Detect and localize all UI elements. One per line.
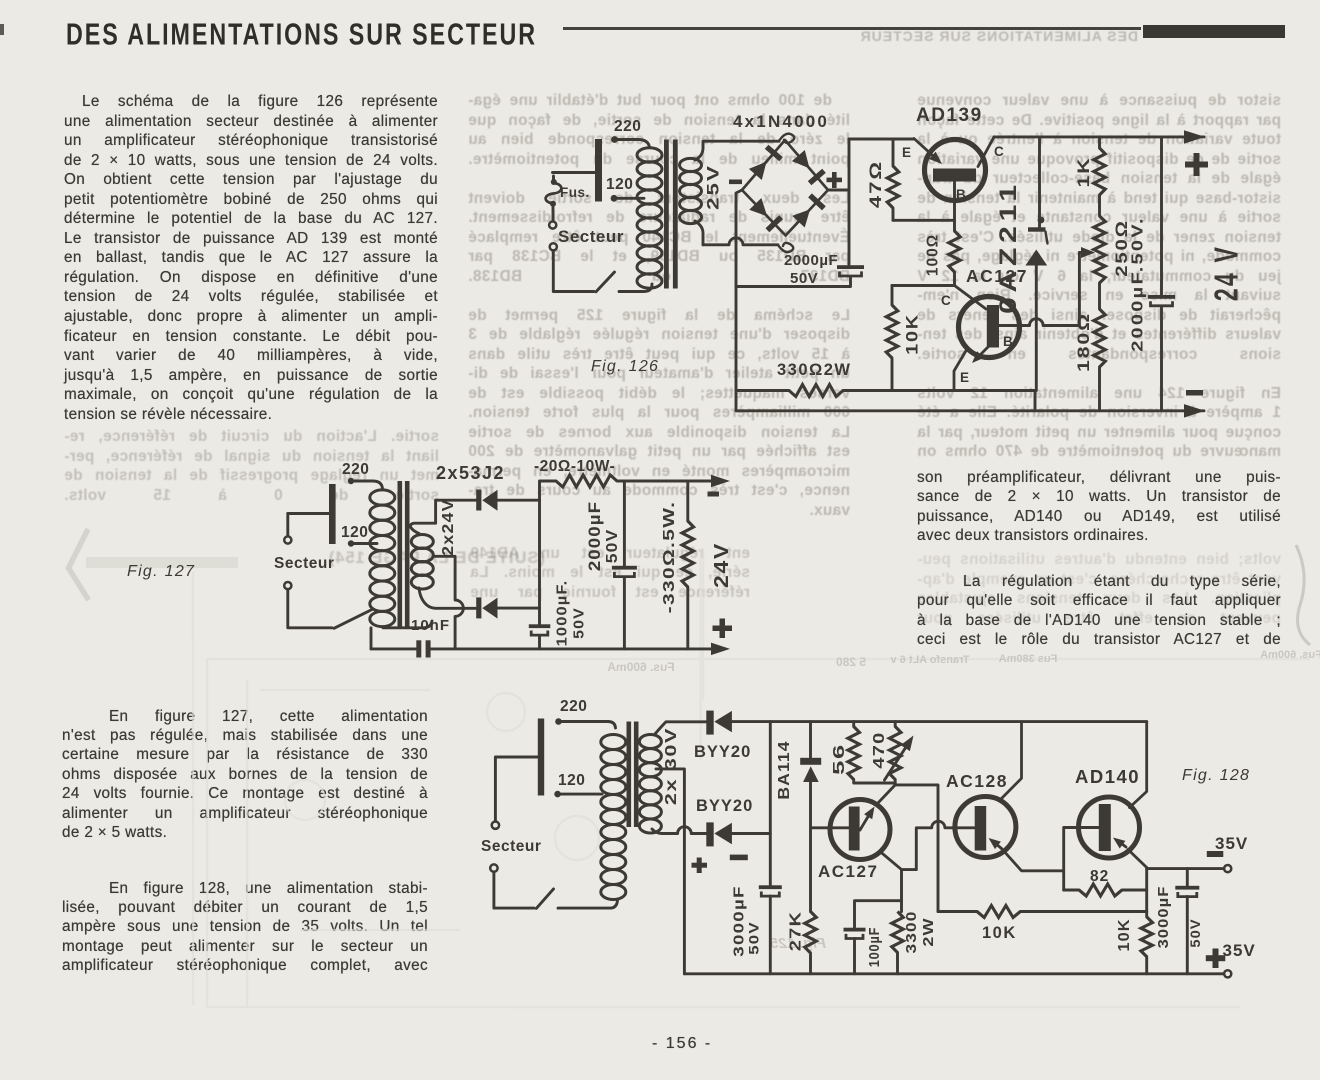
svg-text:B: B [956,187,966,202]
svg-text:5 280: 5 280 [836,655,866,669]
transistor AC128 [955,722,1064,871]
wire D1 to filter node [498,499,540,502]
wire bridge minus down the left (node -) [736,190,742,411]
output + sign (Fig.127) [713,619,733,639]
svg-text:Secteur: Secteur [481,838,541,855]
wire C2 to bottom rail [1160,306,1163,411]
filter node vertical (Fig.127) [538,500,541,624]
capacitor C1 2000uF stem [848,190,851,265]
wire 100uF to rail [853,939,856,974]
svg-text:24 V: 24 V [1208,245,1245,301]
transistor AD139 label [916,105,983,126]
wire switch to coil bottom (Fig.127) [383,621,432,628]
label BYY20 no.1 [694,743,751,761]
diode BA114 [800,758,821,782]
bottom rail left piece (Fig.127) [371,647,416,650]
resistor 330ohm 2W [789,385,843,397]
top rail (Fig.128) [732,720,1147,723]
transformer T1 secondary winding 25V [680,158,702,223]
label B of AC127 [1003,334,1013,349]
AC127 emitter net to 3300 [900,870,903,912]
bleed chevron arrow glyph [69,529,89,600]
label 10nF [411,617,450,634]
label 50V of 1000uF rotated [571,607,587,639]
svg-text:50V: 50V [1188,918,1204,947]
label B of AD139 [956,187,966,202]
svg-text:-20Ω-10W-: -20Ω-10W- [534,458,615,475]
label +35V plus sign [1206,949,1226,969]
wire plate left (Fig.128) [496,756,538,759]
transformer T1 120 terminal dot and lead wire [611,195,644,202]
diode D2 2x53J2 bottom [476,597,497,618]
bridge diode D1 upper-left [749,147,781,180]
text column 1 (top left) [64,93,438,425]
svg-text:Fig. 128: Fig. 128 [1182,767,1250,784]
secondary bottom lead with hop (Fig.128) [652,827,706,834]
svg-text:Fig. 127: Fig. 127 [127,563,195,580]
bleed mirrored text: middle column top [468,92,850,521]
transformer T3 secondary 2x30V [639,735,661,834]
bleed gray band [86,557,238,568]
svg-text:Fig. 126: Fig. 126 [591,358,659,375]
label 10K rotated (Fig.126) [903,313,921,355]
svg-text:82: 82 [1090,868,1109,885]
svg-text:50V: 50V [603,529,621,564]
label 24 V rotated (Fig.126) [1208,245,1245,301]
transformer T3 120 dot and wire [554,791,602,798]
label 1000uF rotated [554,580,570,647]
svg-text:25V: 25V [704,164,723,210]
top rail + AD139 C to output arrow [994,135,1204,138]
label BYY20 no.2 [696,797,753,815]
diode BA114 line from rail [809,722,812,758]
label 3000uF no.2 rotated [1155,886,1171,949]
svg-text:24V: 24V [709,542,732,588]
capacitor 3000uF 50V no.1 [759,885,782,896]
page edge tick [0,24,4,35]
wire switch to coil bottom (Fig.128) [558,900,618,908]
label 50V [790,270,818,287]
header thick bar [1143,25,1285,39]
top rail riser (Fig.127) [540,481,557,500]
text column 2 paragraph 2 [62,880,428,977]
transformer T3 primary winding [601,735,626,900]
output terminal -35V [1224,865,1231,872]
label 25V rotated [704,164,723,210]
wire 2000uF to rail (Fig.127) [623,577,626,649]
resistor 10K row (Fig.128) [938,906,1147,918]
svg-text:120: 120 [606,176,633,193]
svg-text:2x 30V: 2x 30V [663,727,681,805]
transistor AD140 label [1075,766,1140,787]
cap polarity + sign [692,858,708,874]
diode D1 2x53J2 top [476,490,497,511]
svg-text:2x53J2: 2x53J2 [436,463,505,483]
label 470 rotated [870,731,888,768]
cap polarity - sign [730,855,748,861]
wire BYY20 no.2 to cap node [732,832,770,835]
top rail + (Fig.126) bridge to AD139 E corner [849,138,914,141]
node wire to 10K row [895,785,938,912]
transformer T2 secondary 2x24V [411,535,433,590]
label 35V bottom [1223,941,1256,960]
resistor 330ohm 5W vertical [682,481,694,649]
resistor 3300 2W [892,912,904,974]
svg-text:50V: 50V [747,921,762,954]
wire BA114 to AC127 base (Fig.128) [811,826,849,829]
lower open terminal (Fig.127) [284,582,291,589]
output terminal +35V [1224,970,1231,977]
svg-text:220: 220 [614,118,641,135]
label Secteur (Fig.126) [558,227,624,246]
zener 0AZ211 triangle [1025,250,1047,266]
capacitor 1000uF 50V [529,624,551,635]
svg-text:10K: 10K [903,313,921,355]
label Fus. [560,185,590,200]
switch open terminal lower (Fig.126) [550,243,557,250]
svg-text:2000µF.50V.: 2000µF.50V. [1128,216,1146,352]
text right column block B [917,573,1281,651]
label 250ohm rotated [1111,219,1130,277]
svg-text:220: 220 [342,461,369,478]
label 1K rotated [1075,157,1094,188]
diode BYY20 no.2 [706,822,732,846]
svg-text:BA114: BA114 [775,740,793,799]
label 0AZ211 rotated [995,180,1021,314]
svg-text:47Ω: 47Ω [867,160,886,208]
resistor 10K vertical (Fig.128) [1141,917,1153,974]
top rail to arrow (Fig.127) [617,480,711,483]
label 2x53J2 [436,463,505,483]
transformer T2 220 label (Fig.127) [342,461,369,478]
header mirrored bleed [828,28,1138,44]
transformer T3 220 label (Fig.128) [560,698,587,715]
ghost schematic bleed-through (decorative) [193,548,1310,1007]
label 2000uF.50V rotated [1128,216,1146,352]
transformer T2 120 dot and wire [348,540,377,546]
svg-text:56: 56 [830,743,848,775]
diode BYY20 no.1 [706,711,732,735]
wire secondary bottom to AC wire (Fig.126) [695,221,703,245]
header thin rule [563,27,1141,30]
label 3300 rotated [903,911,920,954]
wire primary bottom to low rail (Fig.127) [370,628,373,649]
capacitor C2 2000uF.50V stem [1160,137,1163,295]
mains selector plate bar (Fig.127) [329,484,336,544]
AC128 base wire with hop [902,821,975,869]
svg-text:Fus. 600mA: Fus. 600mA [1260,649,1320,661]
fuse Fus. (Fig.126) squiggle with dots [546,176,562,207]
svg-text:2000µF: 2000µF [784,252,838,269]
AC127 base wire with hop over zener line [999,319,1079,326]
svg-text:180Ω: 180Ω [1075,312,1094,372]
upper open terminal (Fig.128) [492,757,499,829]
wire secondary top to bridge AC input (Fig.126) [695,141,779,160]
wire D2 to filter node [498,607,540,610]
center tap wire down (Fig.128) [656,769,684,974]
wire AD139 base down [953,182,956,232]
zener diode 0AZ211 line from top rail [1038,137,1041,227]
transformer T1 (Fig.126) primary terminal 220 label [614,118,641,135]
wire 10K top link and AC127 collector [892,286,986,310]
resistor 20ohm 10W [556,475,617,487]
transistor AC128 label [946,771,1008,791]
transformer T3 core [627,722,639,828]
svg-text:470: 470 [870,731,888,768]
label Fig. 126 [591,358,659,375]
capacitor C1 2000uF 50V [837,265,864,276]
zener 0AZ211 cathode bar and jog [1028,227,1048,243]
output - arrow (Fig.126) [1184,404,1205,418]
svg-text:0AZ211: 0AZ211 [995,180,1021,314]
label 180ohm rotated [1075,312,1094,372]
label C of AC127 [941,293,951,308]
svg-text:100µF: 100µF [865,927,882,968]
label 27K rotated [786,911,804,951]
label 2000uF [784,252,838,269]
label 50V rotated (Fig.127) [603,529,621,564]
wire plate to fuse (Fig.126) [553,171,596,174]
svg-text:2x24V: 2x24V [439,498,457,555]
switch blade (Fig.127) [334,610,372,629]
label -20ohm-10W- [534,458,615,475]
transformer T2 120 label (Fig.127) [341,524,368,541]
transformer T1 core laminations [664,140,678,289]
transistor AD139 (Fig.126) [914,137,994,201]
zener junction dot [1038,217,1045,224]
resistor 10K vertical (Fig.126) [886,286,898,391]
label 2W rotated [919,917,936,946]
bleed mirrored text: right column mid [917,551,1281,629]
label E of AD139 [902,145,911,160]
wire bridge plus to top rail [828,139,849,190]
bridge top pigtail [779,134,794,143]
label Fig. 127 [127,563,195,580]
label 50V no.2 rotated [1188,918,1204,947]
svg-text:BYY20: BYY20 [694,743,751,761]
svg-text:100Ω: 100Ω [925,234,942,276]
resistor 100ohm vertical [949,231,961,286]
capacitor 3000uF no.1 stem [769,722,772,886]
transformer T1 220 terminal dot and lead wire [611,136,649,147]
svg-text:3000µF: 3000µF [1155,886,1171,949]
output + sign (Fig.126) [1185,153,1208,176]
svg-text:3300: 3300 [903,911,920,954]
wire 3000uF no.2 to rail [1186,897,1189,974]
label 24V rotated (Fig.127) [709,542,732,588]
svg-text:AD139: AD139 [916,105,983,126]
capacitor 3000uF no.2 [1175,886,1199,897]
wire C1 bottom to minus line [736,277,851,287]
transformer T1 primary winding [637,148,662,288]
svg-text:AC127: AC127 [818,862,878,881]
wiper wire down to AC127 base [1078,253,1081,326]
bottom rail continues to step [843,391,1035,411]
transistor AC127 (Fig.128) [830,785,902,870]
output - sign (Fig.127) [708,492,720,497]
label 56 rotated [830,743,848,775]
bridge diode D2 upper-right [792,150,824,183]
text column 2 (bottom left) paragraph 1 [62,708,428,844]
wire plate to left (Fig.127) [288,512,329,515]
secondary top lead (Fig.128) [655,722,706,734]
wire to switch (Fig.128) [494,872,534,908]
svg-text:Secteur: Secteur [558,227,624,246]
svg-text:330Ω2W: 330Ω2W [777,361,852,379]
svg-text:1000µF.: 1000µF. [554,580,570,647]
zener line down to rail [1035,266,1038,391]
bottom rail (Fig.128) [684,972,1223,975]
transformer T1 primary terminal 120 label [606,176,633,193]
label -330ohm.5W- rotated [660,501,678,614]
bottom AC wire with hop over minus line [703,238,778,245]
page number [652,1035,712,1053]
svg-text:C: C [941,293,951,308]
capacitor 100uF tee [855,901,902,928]
svg-text:10K: 10K [1116,919,1133,952]
switch blade (Fig.128) [536,889,553,909]
transformer T2 primary winding [370,490,395,627]
label Secteur (Fig.127) [274,555,334,572]
svg-text:E: E [902,145,911,160]
transistor AC127 (Fig.126) [954,297,1020,391]
capacitor 2000uF stem (Fig.127) [623,481,626,566]
svg-text:50V: 50V [571,607,587,639]
capacitor 10nF plates [416,640,430,657]
resistor 56 [848,722,894,783]
bottom rail main (Fig.127) [431,647,711,650]
bridge plus sign [827,172,843,188]
pot 470 wiper arrow [885,736,914,781]
upper open terminal (Fig.127) [284,514,291,544]
transistor AC127 label (Fig.126) [966,266,1028,286]
svg-text:220: 220 [560,698,587,715]
bridge bottom pigtail [778,243,793,252]
mains selector plate bar (Fig.128) [538,719,544,796]
capacitor 3000uF no.2 stem [1186,869,1189,886]
svg-text:E: E [960,370,969,385]
output top arrow (Fig.127) [711,475,730,487]
transistor AC127 label (Fig.128) [818,862,878,881]
resistor 180ohm vertical [1094,283,1106,411]
switch blade (Fig.126) [596,272,615,292]
svg-text:-330Ω.5W.: -330Ω.5W. [660,501,678,614]
output + arrow (Fig.126) [1184,130,1205,144]
svg-text:AD140: AD140 [1075,766,1140,787]
svg-text:2W: 2W [919,917,936,946]
resistor 1K vertical [1094,137,1106,216]
label Fig. 128 [1182,767,1250,784]
transformer T3 220 dot and wire [555,718,615,728]
svg-text:27K: 27K [786,911,804,951]
wire lower terminal to switch blade (Fig.126) [553,250,594,291]
label 47ohm rotated [867,160,886,208]
bleed mirrored SUITE band [295,549,545,568]
svg-text:35V: 35V [1223,941,1256,960]
svg-text:10nF: 10nF [411,617,450,634]
svg-text:AC128: AC128 [946,771,1008,791]
label 82 [1090,868,1109,885]
label 50V no.1 rotated [747,921,762,954]
transformer T3 120 label (Fig.128) [558,772,585,789]
bottom rail lower to output arrow [736,409,1204,412]
svg-text:BYY20: BYY20 [696,797,753,815]
label 3000uF no.1 rotated [730,885,747,956]
capacitor C2 2000uF 50V [1148,295,1175,306]
label 4x1N4000 [733,112,829,131]
svg-text:Fus.: Fus. [560,185,590,200]
resistor 82 [1064,884,1147,896]
label 100uF rotated [865,927,882,968]
bridge diode D3 lower-left [749,198,781,230]
bottom rail with 330ohm (Fig.126) [736,389,789,392]
label BA114 rotated [775,740,793,799]
potentiometer 250ohm [1094,216,1106,283]
secondary top lead (Fig.127) [410,500,476,533]
wire to switch (Fig.127) [288,589,332,628]
svg-text:3000µF: 3000µF [730,885,747,956]
label C of AD139 [994,144,1004,159]
transformer T2 220 dot and wire [348,478,383,489]
left margin bleed arrow [0,0,300,620]
label 35V top [1215,834,1248,853]
output bottom arrow (Fig.127) [711,643,730,656]
svg-text:B: B [1003,334,1013,349]
wire fuse to switch terminal (Fig.126) [552,207,555,222]
header title [66,18,537,54]
wire 1000uF to rail [538,635,541,649]
minus 35V output line [1147,867,1224,870]
label 100ohm rotated [925,234,942,276]
transformer T2 core [398,481,410,628]
secondary bottom lead (Fig.127) [419,588,476,608]
transistor AD140 [1079,722,1147,868]
label 2x 30V rotated [663,727,681,805]
svg-text:Fus 380mA: Fus 380mA [999,653,1058,665]
svg-text:4x1N4000: 4x1N4000 [733,112,829,131]
svg-text:120: 120 [558,772,585,789]
label E of AC127 [960,370,969,385]
bridge rectifier 4x1N4000 diamond (Fig.126) [742,140,828,236]
svg-text:35V: 35V [1215,834,1248,853]
output - sign (Fig.126) [1186,390,1203,396]
svg-text:50V: 50V [790,270,818,287]
wire 47ohm to AD139 base node [893,219,955,222]
lower open terminal (Fig.128) [490,864,497,871]
label -35V minus bar [1207,851,1224,857]
vertical emitter net AD140 [1145,869,1148,917]
label Secteur (Fig.128) [481,838,541,855]
svg-text:2000µF: 2000µF [585,501,604,571]
BA114 line to 27K [809,782,812,912]
svg-text:120: 120 [341,524,368,541]
svg-text:Fus. 600mA: Fus. 600mA [607,660,675,674]
svg-text:C: C [994,144,1004,159]
label 10K vertical rotated [1116,919,1133,952]
bleed mirrored text: middle column mid [470,545,750,603]
capacitor 100uF [844,928,866,939]
center tap wire with hop (Fig.127) [433,556,463,647]
label 10K row [982,924,1017,942]
resistor 27K [805,912,817,974]
svg-text:1K: 1K [1075,157,1094,188]
svg-text:Transfo ALt 6 v: Transfo ALt 6 v [890,654,970,666]
wire 3000uF no.1 to rail [769,896,772,974]
wire switch to primary coil bottom (Fig.126) [619,284,652,292]
switch open terminal upper (Fig.126) [549,221,556,228]
capacitor 2000uF 50V (Fig.127) [612,566,637,577]
mains selector plate bar (Fig.126) [595,139,602,202]
